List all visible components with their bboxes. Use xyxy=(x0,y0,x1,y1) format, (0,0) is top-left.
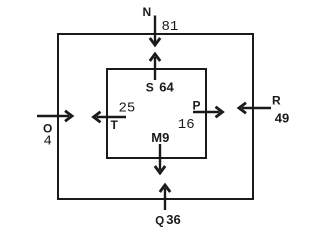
svg-text:N: N xyxy=(143,5,152,19)
inner box xyxy=(107,69,206,158)
svg-text:T: T xyxy=(111,118,119,132)
svg-text:16: 16 xyxy=(178,117,195,133)
svg-text:25: 25 xyxy=(119,101,136,117)
svg-text:36: 36 xyxy=(166,212,180,227)
arrow M (down out of inner box) xyxy=(155,144,165,173)
svg-text:64: 64 xyxy=(159,79,174,94)
svg-text:81: 81 xyxy=(162,19,179,35)
svg-text:M9: M9 xyxy=(151,130,169,145)
arrow Q (up into outer box from below) xyxy=(160,185,170,210)
svg-text:R: R xyxy=(272,94,281,108)
outer box xyxy=(58,34,253,199)
arrow R (left into outer box) xyxy=(239,103,271,113)
svg-text:Q: Q xyxy=(155,216,164,228)
arrow P (right out of inner box) xyxy=(193,107,223,117)
arrow O (right into outer box) xyxy=(37,111,72,121)
arrow N (down into outer box) xyxy=(150,16,160,46)
svg-text:4: 4 xyxy=(44,134,52,150)
arrow S (up into inner box) xyxy=(150,54,160,80)
arrow T (left out of inner box) xyxy=(94,112,127,122)
svg-text:P: P xyxy=(193,98,201,112)
svg-text:49: 49 xyxy=(275,110,289,125)
svg-text:S: S xyxy=(146,80,154,94)
